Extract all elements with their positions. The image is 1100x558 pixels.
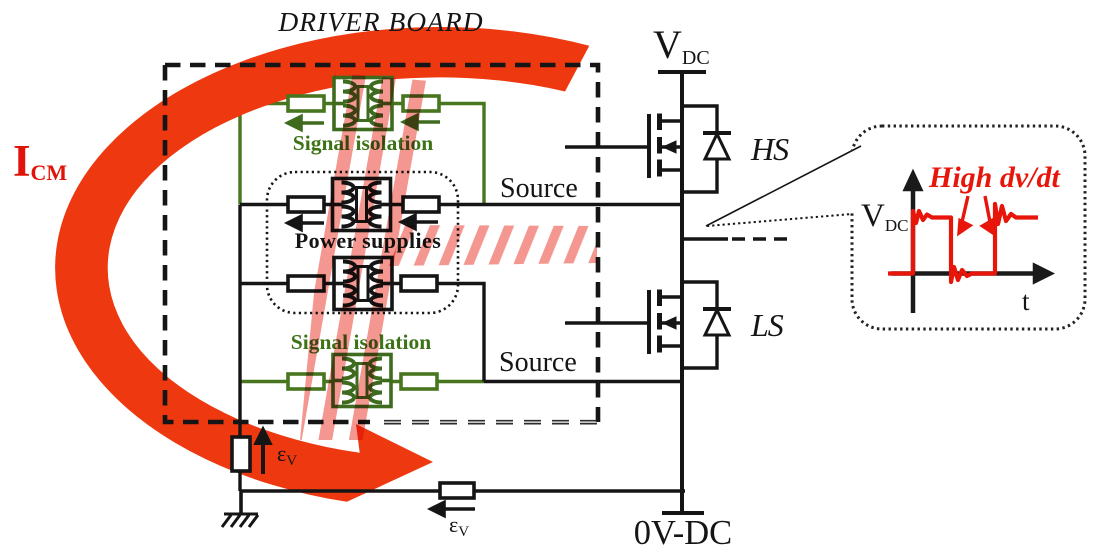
current arrow (black, right of T2) bbox=[402, 216, 438, 229]
wire: power supply LS row with drop bbox=[240, 284, 484, 382]
waveform (high dv/dt switching) bbox=[888, 204, 1038, 282]
arrow epsilon-V (left) bbox=[431, 503, 475, 516]
ground bbox=[222, 491, 258, 527]
resistor (power row 1, left) bbox=[288, 197, 324, 212]
resistor (parasitic, vertical at ground) bbox=[232, 437, 250, 471]
gate stub HS bbox=[565, 145, 649, 148]
parasitic coupling hatch (horizontal band) bbox=[388, 225, 597, 266]
svg-text:Source: Source bbox=[499, 347, 577, 378]
wire: HS signal isolation row (green) bbox=[240, 104, 484, 205]
driver board boundary (degraded bottom-right dashes) bbox=[384, 421, 598, 424]
wire: black driver bus (left vertical) bbox=[238, 205, 241, 492]
diode D2 (LS body diode) bbox=[682, 282, 731, 368]
svg-text:LS: LS bbox=[750, 307, 784, 343]
wire: LS signal isolation row (green) bbox=[240, 380, 484, 383]
resistor (LS signal row, right) bbox=[401, 374, 437, 389]
resistor (parasitic, bottom return) bbox=[440, 483, 474, 498]
mid-point stub (dashed) bbox=[732, 237, 792, 241]
resistor (power row 1, right) bbox=[403, 197, 439, 212]
current arrow (green, right of T1) bbox=[404, 116, 440, 129]
current arrow (black, left of T2) bbox=[288, 217, 324, 230]
driver board dashed boundary bbox=[165, 65, 598, 422]
graph vertical axis bbox=[906, 174, 920, 313]
mid-point stub (solid) bbox=[684, 237, 728, 241]
current arrow (green, left of T1) bbox=[288, 117, 324, 130]
svg-text:0V-DC: 0V-DC bbox=[634, 514, 732, 552]
transformer T4 (signal isolation LS) bbox=[333, 355, 391, 407]
common-mode current arc ICM bbox=[55, 27, 589, 502]
svg-text:High dv/dt: High dv/dt bbox=[928, 161, 1062, 194]
VDC rail bar bbox=[658, 70, 706, 74]
0V rail bar bbox=[662, 511, 704, 515]
wire: HS source row bbox=[240, 203, 682, 206]
graph horizontal axis bbox=[891, 266, 1050, 281]
transistor Q2 LS MOSFET bbox=[649, 290, 682, 355]
transformer T3 (power supply LS) bbox=[334, 258, 392, 310]
resistor (power row 2, left) bbox=[288, 276, 324, 291]
wire: main half-bridge vertical bbox=[680, 72, 684, 513]
power supplies dotted enclosure bbox=[267, 172, 458, 313]
svg-text:HS: HS bbox=[750, 131, 789, 167]
wire: LS source row bbox=[484, 380, 682, 383]
transformer T2 (power supply HS) bbox=[333, 179, 391, 231]
annotation arrow (left) bbox=[959, 196, 970, 233]
arrow epsilon-V (up) bbox=[257, 430, 270, 474]
resistor (HS signal row, right) bbox=[403, 96, 439, 111]
resistor (HS signal row, left) bbox=[288, 96, 324, 111]
transformer T1 (signal isolation HS) bbox=[334, 78, 392, 130]
gate stub LS bbox=[565, 321, 649, 324]
callout bubble bbox=[706, 126, 1085, 329]
resistor (LS signal row, left) bbox=[288, 374, 324, 389]
wire: bottom common return bbox=[240, 489, 685, 493]
annotation arrow (right) bbox=[983, 196, 994, 233]
svg-text:Source: Source bbox=[500, 173, 578, 204]
svg-text:DRIVER BOARD: DRIVER BOARD bbox=[277, 6, 483, 37]
parasitic coupling hatch (diagonal band) bbox=[300, 73, 441, 440]
svg-text:t: t bbox=[1022, 286, 1030, 316]
resistor (power row 2, right) bbox=[401, 276, 437, 291]
diode D1 (HS body diode) bbox=[682, 106, 731, 192]
transistor Q1 HS MOSFET bbox=[649, 114, 682, 179]
